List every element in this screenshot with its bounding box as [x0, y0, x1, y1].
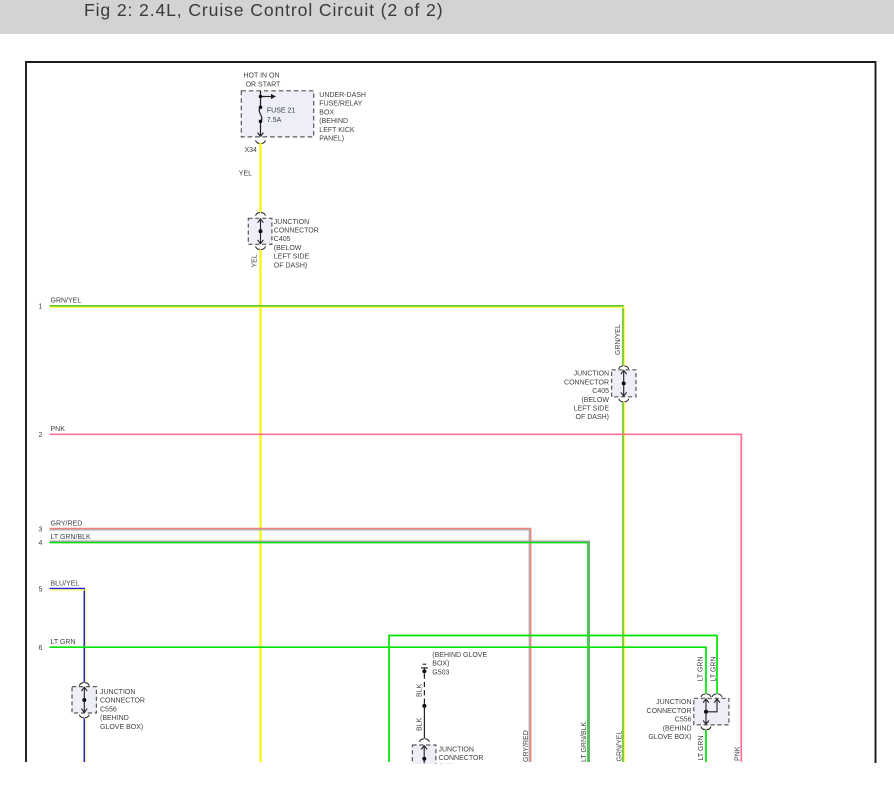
svg-text:CONNECTOR: CONNECTOR — [439, 755, 484, 762]
junction connector C405 left: cap arc — [256, 213, 266, 216]
svg-text:JUNCTION: JUNCTION — [656, 699, 691, 706]
junction connector C405 right: cup arc — [619, 399, 629, 402]
svg-text:5: 5 — [39, 586, 43, 593]
svg-text:CONNECTOR: CONNECTOR — [564, 379, 609, 386]
junction connector C556 right: cap arcs — [701, 694, 722, 697]
svg-text:FUSE/RELAY: FUSE/RELAY — [319, 101, 362, 108]
junction connector C556 left: cap arc — [80, 683, 90, 686]
wire 2 PNK — [50, 434, 742, 762]
fuse node dots — [259, 95, 263, 99]
svg-text:OF DASH): OF DASH) — [274, 262, 307, 269]
svg-text:1: 1 — [39, 304, 43, 311]
junction connector C556 right: internals — [703, 699, 720, 725]
svg-text:C405: C405 — [592, 388, 609, 395]
wire LT GRN (below C556 right) — [705, 730, 707, 762]
svg-text:BOX): BOX) — [432, 661, 449, 668]
wire YEL (C405 to bottom) — [259, 250, 261, 762]
svg-text:4: 4 — [39, 540, 43, 547]
splice dot — [422, 704, 426, 708]
ground G503 — [421, 664, 428, 669]
svg-text:LT GRN: LT GRN — [698, 735, 705, 760]
svg-text:JUNCTION: JUNCTION — [439, 747, 474, 754]
svg-text:(BEHIND GLOVE: (BEHIND GLOVE — [432, 652, 487, 659]
wire BLK dashed (G503 to splice) — [423, 674, 425, 704]
fuse arrow right — [271, 94, 276, 99]
svg-text:(BEHIND: (BEHIND — [100, 715, 129, 722]
svg-text:UNDER-DASH: UNDER-DASH — [319, 92, 366, 99]
svg-text:3: 3 — [39, 526, 43, 533]
svg-text:GRY/RED: GRY/RED — [523, 730, 530, 762]
svg-text:LT GRN: LT GRN — [51, 639, 76, 646]
svg-text:6: 6 — [39, 645, 43, 652]
junction connector C556 left: cup arc — [80, 715, 90, 718]
svg-text:OR START: OR START — [246, 81, 281, 88]
svg-text:BLK: BLK — [417, 717, 424, 731]
header title — [84, 0, 443, 20]
svg-text:C401: C401 — [439, 763, 456, 770]
fuse/relay box (dashed) — [241, 91, 313, 137]
svg-text:GRN/YEL: GRN/YEL — [617, 731, 624, 762]
junction connector C556 left: dashed box — [72, 687, 96, 713]
fuse F21 internals — [258, 91, 272, 137]
svg-text:JUNCTION: JUNCTION — [274, 219, 309, 226]
junction connector C405 right: cap arc — [619, 366, 629, 369]
svg-text:LT GRN/BLK: LT GRN/BLK — [51, 534, 92, 541]
svg-text:HOT IN ON: HOT IN ON — [244, 73, 280, 80]
svg-text:PNK: PNK — [734, 746, 741, 761]
svg-text:(BELOW: (BELOW — [274, 245, 302, 252]
svg-text:GRN/YEL: GRN/YEL — [615, 324, 622, 355]
svg-text:C556: C556 — [100, 706, 117, 713]
svg-text:BOX: BOX — [319, 109, 334, 116]
svg-text:LEFT KICK: LEFT KICK — [319, 127, 355, 134]
junction connector C405 right: internals — [621, 370, 627, 396]
junction connector C556 left: internals — [81, 687, 87, 713]
svg-text:GLOVE BOX): GLOVE BOX) — [648, 734, 691, 741]
svg-text:JUNCTION: JUNCTION — [574, 371, 609, 378]
svg-text:BLU/YEL: BLU/YEL — [51, 581, 80, 588]
svg-text:GRY/RED: GRY/RED — [51, 521, 83, 528]
junction connector C556 right: cup arc — [701, 727, 711, 730]
svg-text:LEFT SIDE: LEFT SIDE — [574, 406, 610, 413]
svg-text:FUSE 21: FUSE 21 — [267, 107, 296, 114]
svg-text:(BEHIND: (BEHIND — [319, 118, 348, 125]
svg-text:GLOVE BOX): GLOVE BOX) — [100, 724, 143, 731]
wire LT GRN L-shape (from bottom up and right) — [389, 636, 717, 763]
svg-text:C405: C405 — [274, 236, 291, 243]
junction connector C401: cap arc — [420, 739, 430, 742]
junction connector C405 left: cup arc — [256, 247, 266, 250]
svg-text:LT GRN: LT GRN — [710, 656, 717, 681]
connector X34 (cup arc) — [256, 141, 266, 144]
svg-text:BLK: BLK — [417, 683, 424, 697]
svg-text:LT GRN/BLK: LT GRN/BLK — [581, 721, 588, 762]
junction connector C556 right: dashed box — [694, 698, 729, 725]
junction connector C405 right: dashed box — [612, 370, 636, 397]
wire YEL (fuse to C405) — [259, 143, 261, 213]
wire BLU/YEL (below C556 left) — [83, 718, 85, 762]
svg-text:C556: C556 — [675, 717, 692, 724]
svg-text:CONNECTOR: CONNECTOR — [647, 708, 692, 715]
svg-text:OF DASH): OF DASH) — [576, 414, 609, 421]
junction connector C405 left: internals — [258, 219, 264, 245]
header bar — [0, 0, 894, 34]
svg-text:X34: X34 — [245, 147, 258, 154]
svg-text:JUNCTION: JUNCTION — [100, 689, 135, 696]
svg-text:2: 2 — [39, 432, 43, 439]
svg-text:7.5A: 7.5A — [267, 117, 282, 124]
junction connector C401: dashed box (clipped at bottom) — [412, 745, 436, 771]
svg-text:LEFT SIDE: LEFT SIDE — [274, 254, 310, 261]
wire 3 GRY/RED — [50, 529, 531, 763]
junction connector C405 left: dashed box — [248, 218, 272, 244]
svg-text:G503: G503 — [432, 669, 449, 676]
svg-text:YEL: YEL — [239, 170, 252, 177]
svg-text:PANEL): PANEL) — [319, 136, 344, 143]
junction connector C401: internals — [421, 745, 427, 763]
svg-text:YEL: YEL — [252, 254, 259, 267]
svg-text:PNK: PNK — [51, 426, 66, 433]
svg-text:CONNECTOR: CONNECTOR — [274, 228, 319, 235]
wire GRN/YEL (C405 right to bottom) — [622, 402, 624, 762]
svg-text:(BELOW: (BELOW — [581, 397, 609, 404]
svg-text:GRN/YEL: GRN/YEL — [51, 298, 82, 305]
svg-text:LT GRN: LT GRN — [698, 656, 705, 681]
wire 6 LT GRN — [50, 647, 707, 693]
svg-text:CONNECTOR: CONNECTOR — [100, 698, 145, 705]
wire 1 GRN/YEL — [50, 306, 624, 366]
wire BLK solid (splice to connector) — [423, 706, 425, 739]
wire 5 BLU/YEL — [50, 589, 85, 683]
svg-text:(BEHIND: (BEHIND — [663, 725, 692, 732]
wire 4 LT GRN/BLK — [50, 541, 590, 762]
